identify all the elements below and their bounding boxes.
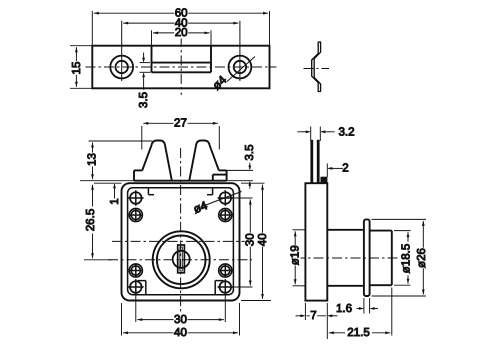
svg-text:40: 40 — [256, 233, 269, 246]
svg-text:2: 2 — [342, 161, 348, 174]
svg-text:1.6: 1.6 — [336, 302, 352, 315]
svg-text:30: 30 — [244, 233, 257, 246]
svg-text:3.5: 3.5 — [243, 144, 256, 160]
svg-text:ø18.5: ø18.5 — [400, 244, 413, 274]
svg-text:27: 27 — [174, 117, 187, 130]
svg-text:20: 20 — [175, 26, 188, 39]
svg-text:40: 40 — [174, 326, 187, 339]
svg-text:1: 1 — [108, 198, 121, 204]
svg-text:30: 30 — [174, 313, 187, 326]
svg-text:ø26: ø26 — [415, 248, 428, 268]
svg-text:26.5: 26.5 — [84, 209, 97, 232]
svg-text:13: 13 — [85, 153, 98, 166]
svg-text:3.5: 3.5 — [137, 92, 150, 108]
svg-text:3.2: 3.2 — [338, 126, 354, 139]
svg-text:7: 7 — [310, 309, 316, 322]
svg-text:21.5: 21.5 — [347, 326, 370, 339]
svg-text:ø19: ø19 — [288, 245, 301, 265]
svg-text:15: 15 — [70, 62, 83, 75]
